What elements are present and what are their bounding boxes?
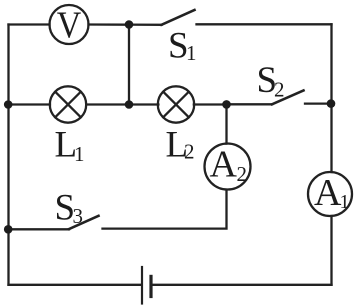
wire node F to switch S3 bbox=[9, 228, 70, 230]
node F junction dot bbox=[4, 225, 13, 234]
wire S1 contact to top-right corner bbox=[197, 23, 332, 25]
battery long plate bbox=[141, 267, 143, 304]
wire battery to bottom-right bbox=[151, 284, 332, 286]
ammeter A1 bbox=[308, 172, 352, 216]
svg-text:1: 1 bbox=[186, 41, 197, 65]
wire right vertical lower bbox=[330, 216, 332, 285]
wire L1 to node C bbox=[86, 103, 129, 105]
svg-text:V: V bbox=[57, 5, 82, 47]
svg-text:2: 2 bbox=[184, 140, 195, 164]
node D junction dot bbox=[222, 100, 231, 109]
switch S2 blade bbox=[272, 91, 304, 105]
switch S1 blade bbox=[162, 10, 195, 25]
svg-text:1: 1 bbox=[340, 191, 350, 213]
battery short plate bbox=[149, 276, 152, 296]
svg-text:2: 2 bbox=[274, 78, 285, 102]
svg-text:A: A bbox=[210, 143, 238, 185]
node E junction dot bbox=[327, 99, 336, 108]
voltmeter V bbox=[50, 5, 89, 44]
lamp L1 bbox=[50, 86, 86, 122]
wire node C to lamp L2 bbox=[129, 103, 158, 105]
svg-text:3: 3 bbox=[73, 204, 84, 228]
wire A2 down to S3 row bbox=[103, 190, 227, 229]
wire node B to lamp L1 bbox=[9, 103, 51, 105]
switch S3 blade bbox=[69, 216, 99, 229]
wire node D down to ammeter A2 bbox=[225, 105, 227, 144]
svg-text:A: A bbox=[314, 172, 342, 214]
ammeter A2 bbox=[205, 144, 251, 190]
wire node A to node C vertical bbox=[128, 25, 130, 105]
wire right vertical upper bbox=[330, 24, 332, 172]
wire left vertical bbox=[7, 25, 9, 285]
node A junction dot bbox=[125, 20, 134, 29]
lamp L2 bbox=[158, 86, 194, 122]
node B junction dot bbox=[4, 100, 13, 109]
node C junction dot bbox=[125, 100, 134, 109]
wire node D to switch S2 bbox=[227, 103, 273, 105]
wire bottom-left to battery bbox=[9, 284, 142, 286]
svg-text:2: 2 bbox=[237, 162, 248, 186]
wire L2 to node D bbox=[194, 103, 227, 105]
wire S2 contact to node E bbox=[305, 102, 332, 104]
svg-text:1: 1 bbox=[74, 142, 85, 166]
wire top-left to voltmeter bbox=[9, 23, 50, 25]
wire voltmeter to node A bbox=[89, 23, 162, 26]
